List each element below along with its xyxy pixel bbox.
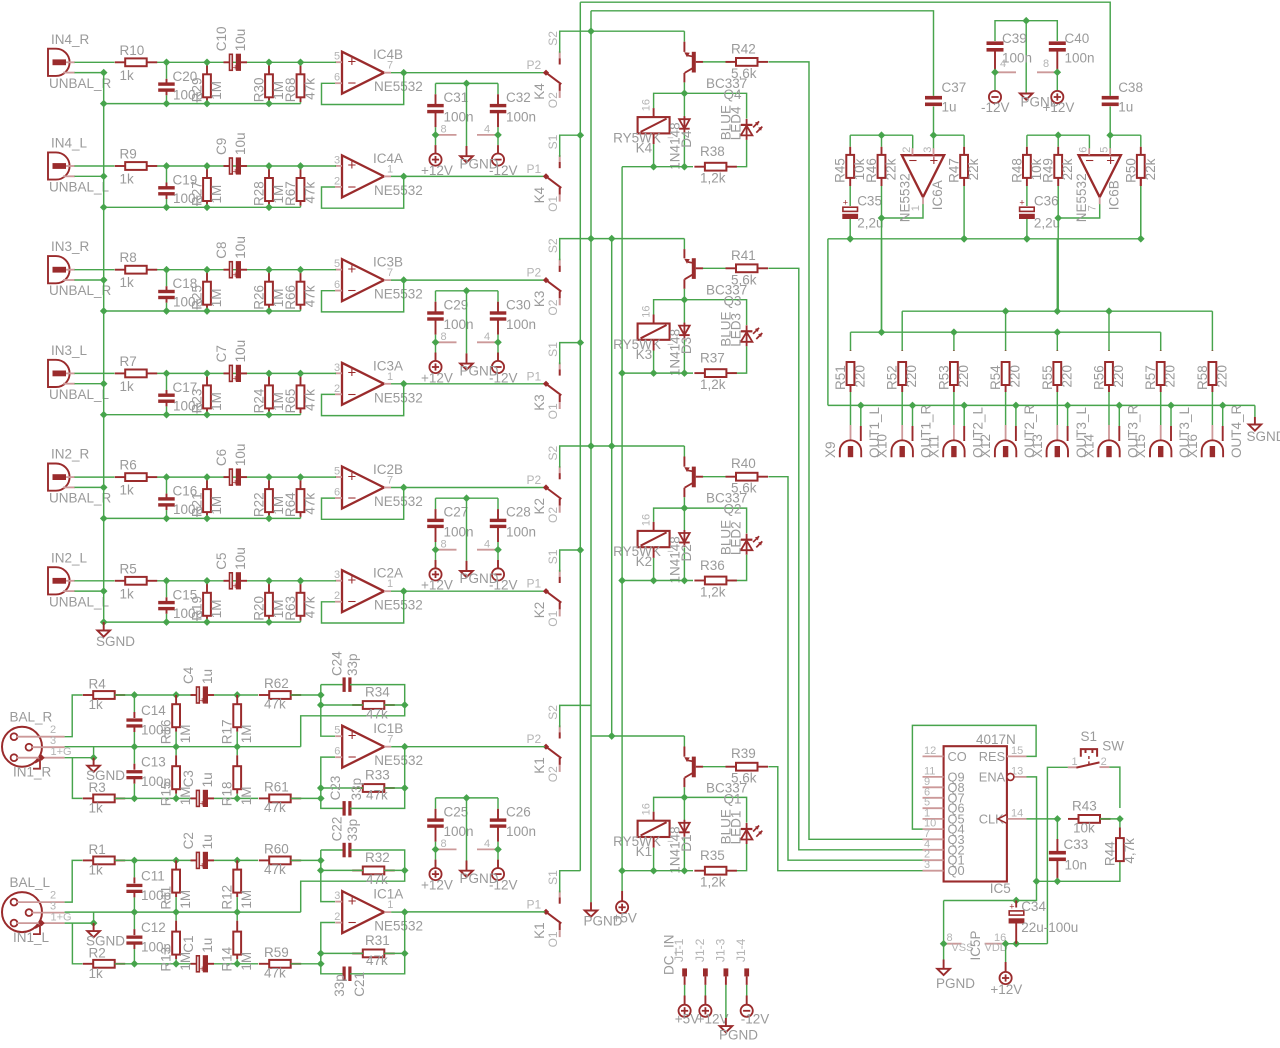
svg-text:1k: 1k (89, 697, 104, 712)
svg-text:O2: O2 (546, 507, 560, 523)
svg-text:33p: 33p (349, 778, 364, 801)
svg-text:1M: 1M (209, 81, 224, 100)
svg-text:4017N: 4017N (976, 732, 1016, 747)
svg-text:33p: 33p (345, 819, 360, 842)
svg-text:BAL_L: BAL_L (10, 875, 51, 890)
svg-text:R13: R13 (159, 947, 174, 972)
svg-text:R21: R21 (190, 492, 205, 517)
svg-text:C4: C4 (181, 666, 196, 684)
svg-text:LED3: LED3 (729, 313, 744, 347)
svg-text:1k: 1k (120, 68, 135, 83)
svg-text:14: 14 (1011, 807, 1023, 819)
svg-text:15: 15 (1011, 745, 1023, 757)
svg-text:R39: R39 (731, 746, 756, 761)
svg-text:NE5532: NE5532 (374, 753, 423, 768)
svg-text:R6: R6 (120, 458, 137, 473)
svg-text:ENA: ENA (979, 769, 1006, 784)
svg-text:C23: C23 (328, 776, 343, 801)
svg-text:10n: 10n (1065, 858, 1088, 873)
svg-text:P1: P1 (527, 369, 542, 383)
svg-text:R15: R15 (159, 781, 174, 806)
svg-text:2: 2 (334, 175, 340, 187)
svg-text:IN2_L: IN2_L (51, 550, 88, 565)
svg-text:S2: S2 (546, 31, 560, 46)
svg-text:1,2k: 1,2k (700, 171, 726, 186)
svg-text:P2: P2 (527, 473, 542, 487)
svg-text:2: 2 (334, 590, 340, 602)
svg-text:SW: SW (1102, 739, 1124, 754)
svg-text:IN3_L: IN3_L (51, 343, 88, 358)
svg-text:+12V: +12V (1043, 100, 1075, 115)
svg-text:100n: 100n (1002, 51, 1032, 66)
svg-text:R61: R61 (264, 779, 289, 794)
svg-text:UNBAL_L: UNBAL_L (49, 594, 110, 609)
svg-text:C3: C3 (181, 770, 196, 787)
svg-text:C14: C14 (141, 703, 166, 718)
svg-text:OUT4_R: OUT4_R (1229, 404, 1244, 458)
svg-text:1k: 1k (89, 862, 104, 877)
svg-text:Q4: Q4 (724, 87, 743, 102)
svg-text:47k: 47k (366, 953, 388, 968)
svg-text:1u: 1u (200, 834, 215, 849)
svg-text:IN1_L: IN1_L (13, 930, 50, 945)
svg-text:R64: R64 (283, 492, 298, 517)
svg-text:R62: R62 (264, 676, 289, 691)
svg-text:2: 2 (334, 383, 340, 395)
svg-text:10u: 10u (233, 547, 248, 570)
svg-text:R58: R58 (1195, 365, 1210, 390)
svg-text:6: 6 (334, 279, 340, 291)
svg-text:R32: R32 (365, 850, 390, 865)
svg-text:UNBAL_R: UNBAL_R (49, 283, 112, 298)
svg-text:S1: S1 (546, 134, 560, 149)
svg-text:C40: C40 (1065, 31, 1090, 46)
svg-text:5: 5 (334, 51, 340, 63)
svg-text:P2: P2 (527, 732, 542, 746)
svg-text:C1: C1 (181, 936, 196, 953)
svg-text:C39: C39 (1002, 31, 1027, 46)
svg-text:O1: O1 (546, 610, 560, 626)
svg-text:IN4_L: IN4_L (51, 136, 88, 151)
svg-text:5: 5 (334, 725, 340, 737)
svg-text:UNBAL_R: UNBAL_R (49, 491, 112, 506)
svg-text:1M: 1M (239, 786, 254, 805)
svg-text:O2: O2 (546, 92, 560, 108)
svg-text:R59: R59 (264, 945, 289, 960)
svg-text:R49: R49 (1041, 158, 1056, 183)
svg-text:−: − (348, 594, 357, 611)
svg-text:LED2: LED2 (729, 521, 744, 555)
svg-text:R47: R47 (947, 158, 962, 183)
svg-text:C30: C30 (506, 297, 531, 312)
svg-text:J1-3: J1-3 (713, 938, 727, 962)
svg-text:R1: R1 (89, 842, 106, 857)
svg-text:C38: C38 (1118, 80, 1143, 95)
svg-text:47k: 47k (303, 78, 318, 100)
svg-text:47k: 47k (303, 493, 318, 515)
svg-text:K4: K4 (532, 83, 547, 100)
svg-text:R8: R8 (120, 250, 137, 265)
svg-text:+: + (200, 964, 205, 974)
svg-text:C9: C9 (214, 138, 229, 155)
svg-text:8: 8 (441, 331, 447, 343)
svg-text:R68: R68 (283, 78, 298, 103)
svg-text:K1: K1 (532, 757, 547, 774)
svg-text:R24: R24 (252, 388, 267, 413)
svg-text:S1: S1 (546, 549, 560, 564)
svg-text:D2: D2 (679, 544, 694, 561)
svg-text:R53: R53 (936, 365, 951, 390)
svg-text:10u: 10u (233, 236, 248, 259)
svg-text:1M: 1M (178, 890, 193, 909)
svg-text:R17: R17 (220, 719, 235, 744)
svg-text:16: 16 (641, 99, 653, 111)
svg-text:R25: R25 (190, 285, 205, 310)
svg-text:R29: R29 (190, 78, 205, 103)
svg-text:NE5532: NE5532 (374, 598, 423, 613)
svg-text:100n: 100n (506, 317, 536, 332)
svg-text:1k: 1k (120, 379, 135, 394)
svg-text:+: + (233, 477, 238, 487)
svg-text:100n: 100n (444, 824, 474, 839)
svg-text:100n: 100n (506, 824, 536, 839)
svg-text:R42: R42 (731, 41, 756, 56)
svg-text:R37: R37 (700, 351, 725, 366)
svg-text:R52: R52 (885, 365, 900, 390)
svg-text:C11: C11 (141, 868, 165, 883)
svg-text:-12V: -12V (741, 1012, 770, 1027)
svg-text:Q2: Q2 (724, 502, 742, 517)
svg-text:47k: 47k (264, 965, 286, 980)
svg-text:1M: 1M (178, 786, 193, 805)
svg-text:3: 3 (334, 569, 340, 581)
svg-text:R56: R56 (1092, 365, 1107, 390)
svg-text:R63: R63 (283, 596, 298, 621)
svg-text:K2: K2 (532, 602, 547, 619)
svg-text:47k: 47k (366, 707, 388, 722)
svg-text:+12V: +12V (697, 1012, 729, 1027)
svg-text:R16: R16 (159, 719, 174, 744)
svg-text:R50: R50 (1123, 158, 1138, 183)
svg-text:10u: 10u (233, 340, 248, 363)
svg-text:1,2k: 1,2k (700, 377, 726, 392)
svg-text:PGND: PGND (460, 871, 499, 886)
svg-text:100n: 100n (506, 110, 536, 125)
svg-text:5: 5 (334, 258, 340, 270)
svg-text:O2: O2 (546, 766, 560, 782)
svg-text:22k: 22k (1143, 158, 1158, 180)
svg-text:1M: 1M (239, 724, 254, 743)
svg-text:IN1_R: IN1_R (13, 765, 52, 780)
svg-text:1k: 1k (120, 172, 135, 187)
svg-text:NE5532: NE5532 (374, 390, 423, 405)
svg-text:4: 4 (1000, 58, 1006, 70)
svg-text:S1: S1 (546, 342, 560, 357)
svg-text:C37: C37 (942, 80, 967, 95)
svg-text:3: 3 (334, 362, 340, 374)
svg-text:4,7k: 4,7k (1122, 838, 1137, 864)
svg-text:R40: R40 (731, 456, 756, 471)
svg-text:+5V: +5V (675, 1012, 699, 1027)
svg-text:UNBAL_R: UNBAL_R (49, 76, 112, 91)
svg-text:1+G: 1+G (51, 746, 72, 758)
svg-text:6: 6 (334, 746, 340, 758)
svg-text:C22: C22 (330, 817, 345, 842)
svg-text:RES: RES (979, 749, 1005, 764)
svg-text:100n: 100n (444, 110, 474, 125)
svg-text:R9: R9 (120, 147, 137, 162)
svg-text:R26: R26 (252, 285, 267, 310)
svg-text:Q1: Q1 (724, 792, 742, 807)
svg-text:IN4_R: IN4_R (51, 32, 90, 47)
svg-text:6: 6 (334, 72, 340, 84)
svg-text:NE5532: NE5532 (374, 287, 423, 302)
svg-text:1M: 1M (178, 952, 193, 971)
svg-text:C13: C13 (141, 755, 166, 770)
svg-text:K3: K3 (532, 291, 547, 308)
svg-text:O1: O1 (546, 196, 560, 212)
svg-text:O1: O1 (546, 931, 560, 947)
svg-text:−: − (348, 179, 357, 196)
svg-text:1,2k: 1,2k (700, 585, 726, 600)
svg-text:O1: O1 (546, 403, 560, 419)
svg-text:1M: 1M (209, 600, 224, 619)
svg-text:+: + (348, 365, 357, 382)
svg-text:R46: R46 (864, 158, 879, 183)
svg-text:P2: P2 (527, 58, 542, 72)
svg-text:+: + (233, 166, 238, 176)
svg-text:PGND: PGND (936, 976, 975, 991)
svg-text:16: 16 (641, 514, 653, 526)
svg-text:C2: C2 (181, 832, 196, 849)
svg-text:47k: 47k (303, 285, 318, 307)
svg-text:C28: C28 (506, 505, 531, 520)
svg-text:X11: X11 (926, 435, 941, 458)
svg-text:C5: C5 (214, 553, 229, 570)
svg-text:IC6B: IC6B (1107, 180, 1122, 210)
svg-text:R31: R31 (365, 933, 390, 948)
svg-text:R55: R55 (1040, 365, 1055, 390)
svg-text:J1-1: J1-1 (672, 938, 686, 962)
svg-text:1M: 1M (209, 496, 224, 515)
svg-text:+: + (233, 374, 238, 384)
svg-text:IC3B: IC3B (373, 255, 403, 270)
svg-text:X13: X13 (1030, 434, 1045, 458)
svg-text:R48: R48 (1009, 158, 1024, 183)
svg-text:+12V: +12V (990, 982, 1022, 997)
svg-text:R67: R67 (283, 181, 298, 206)
svg-text:Q0: Q0 (948, 863, 965, 878)
svg-text:22k: 22k (1060, 158, 1075, 180)
svg-text:P2: P2 (527, 266, 542, 280)
svg-text:R57: R57 (1143, 365, 1158, 390)
svg-text:22k: 22k (966, 158, 981, 180)
svg-text:R54: R54 (988, 365, 1003, 390)
svg-text:47k: 47k (303, 389, 318, 411)
svg-text:−: − (348, 490, 357, 507)
svg-text:+: + (348, 157, 357, 174)
svg-text:1u: 1u (1118, 100, 1133, 115)
svg-text:8: 8 (441, 124, 447, 136)
svg-text:D1: D1 (679, 834, 694, 851)
svg-text:X15: X15 (1133, 434, 1148, 458)
svg-text:47k: 47k (303, 181, 318, 203)
svg-text:4: 4 (484, 124, 490, 136)
svg-text:+: + (348, 54, 357, 71)
svg-text:R19: R19 (190, 596, 205, 621)
svg-text:C25: C25 (444, 804, 469, 819)
svg-text:R34: R34 (365, 685, 390, 700)
svg-text:−: − (348, 283, 357, 300)
svg-text:8: 8 (441, 538, 447, 550)
svg-text:NE5532: NE5532 (1074, 173, 1089, 222)
svg-text:33p: 33p (332, 974, 347, 997)
svg-text:R2: R2 (89, 945, 106, 960)
svg-text:+: + (233, 581, 238, 591)
svg-text:22u-100u: 22u-100u (1021, 920, 1078, 935)
svg-text:220: 220 (1008, 365, 1023, 388)
svg-text:3: 3 (922, 147, 934, 153)
svg-text:6: 6 (334, 487, 340, 499)
svg-text:47k: 47k (303, 596, 318, 618)
svg-text:16: 16 (641, 305, 653, 317)
svg-text:IC5: IC5 (990, 881, 1011, 896)
svg-text:R43: R43 (1072, 799, 1097, 814)
svg-text:220: 220 (956, 365, 971, 388)
svg-text:R12: R12 (220, 885, 235, 910)
svg-text:IC6A: IC6A (930, 180, 945, 210)
svg-text:S1: S1 (546, 870, 560, 885)
svg-text:47k: 47k (264, 862, 286, 877)
svg-text:P1: P1 (527, 577, 542, 591)
svg-text:IC1B: IC1B (373, 721, 403, 736)
svg-text:8: 8 (441, 838, 447, 850)
svg-text:2: 2 (334, 911, 340, 923)
svg-text:R11: R11 (159, 886, 174, 910)
svg-text:1k: 1k (120, 483, 135, 498)
svg-text:1M: 1M (209, 392, 224, 411)
svg-text:+12V: +12V (421, 578, 453, 593)
svg-text:R51: R51 (833, 365, 848, 390)
svg-text:IC5P: IC5P (968, 930, 983, 960)
svg-text:47k: 47k (366, 872, 388, 887)
svg-text:C21: C21 (352, 972, 367, 997)
svg-text:R35: R35 (700, 848, 725, 863)
svg-text:S2: S2 (546, 445, 560, 460)
svg-text:+12V: +12V (421, 163, 453, 178)
svg-text:1k: 1k (120, 586, 135, 601)
svg-text:PGND: PGND (719, 1028, 758, 1043)
svg-text:220: 220 (904, 365, 919, 388)
svg-text:UNBAL_L: UNBAL_L (49, 180, 110, 195)
svg-text:10u: 10u (233, 29, 248, 52)
svg-text:100n: 100n (506, 525, 536, 540)
svg-text:X9: X9 (823, 441, 838, 458)
svg-text:CO: CO (948, 749, 967, 764)
svg-text:K1: K1 (636, 844, 653, 859)
svg-text:PGND: PGND (460, 364, 499, 379)
svg-text:47k: 47k (264, 697, 286, 712)
svg-text:K3: K3 (636, 347, 653, 362)
svg-text:R10: R10 (120, 43, 145, 58)
svg-text:100n: 100n (1065, 51, 1095, 66)
svg-text:+: + (348, 261, 357, 278)
svg-text:47k: 47k (366, 787, 388, 802)
svg-text:IC2A: IC2A (373, 566, 403, 581)
svg-text:IC3A: IC3A (373, 358, 403, 373)
svg-text:C36: C36 (1034, 194, 1059, 209)
svg-text:5: 5 (334, 466, 340, 478)
svg-text:R30: R30 (252, 78, 267, 103)
svg-text:+: + (348, 572, 357, 589)
svg-text:SGND: SGND (96, 634, 135, 649)
svg-text:6: 6 (1078, 147, 1090, 153)
svg-text:+: + (843, 198, 848, 208)
svg-text:+: + (348, 893, 357, 910)
svg-text:K4: K4 (532, 186, 547, 203)
svg-text:1u: 1u (200, 938, 215, 953)
svg-text:NE5532: NE5532 (374, 183, 423, 198)
svg-text:X12: X12 (978, 434, 993, 458)
svg-text:R18: R18 (220, 781, 235, 806)
svg-text:+5V: +5V (613, 911, 637, 926)
svg-text:1: 1 (1072, 756, 1078, 768)
svg-text:X16: X16 (1185, 434, 1200, 458)
svg-text:X10: X10 (875, 434, 890, 458)
svg-text:1u: 1u (200, 669, 215, 684)
svg-text:C26: C26 (506, 804, 531, 819)
svg-text:IC4A: IC4A (373, 151, 403, 166)
svg-text:P1: P1 (527, 897, 542, 911)
svg-text:R33: R33 (365, 767, 390, 782)
svg-text:R4: R4 (89, 677, 107, 692)
svg-text:5: 5 (1099, 147, 1111, 153)
svg-text:16: 16 (641, 803, 653, 815)
svg-text:1+G: 1+G (51, 912, 72, 924)
svg-text:IC4B: IC4B (373, 47, 403, 62)
svg-text:R45: R45 (833, 158, 848, 183)
svg-text:1M: 1M (178, 724, 193, 743)
svg-text:IN3_R: IN3_R (51, 239, 90, 254)
svg-text:R27: R27 (190, 181, 205, 206)
svg-text:+: + (233, 270, 238, 280)
svg-text:+: + (200, 799, 205, 809)
svg-text:PGND: PGND (460, 156, 499, 171)
svg-text:-12V: -12V (981, 100, 1010, 115)
svg-text:33p: 33p (345, 653, 360, 676)
svg-text:−: − (348, 915, 357, 932)
svg-text:PGND: PGND (460, 571, 499, 586)
svg-text:S2: S2 (546, 238, 560, 253)
svg-text:+: + (930, 153, 939, 170)
svg-text:UNBAL_L: UNBAL_L (49, 387, 110, 402)
svg-text:X14: X14 (1082, 433, 1097, 458)
svg-text:D3: D3 (679, 337, 694, 354)
svg-text:+12V: +12V (421, 370, 453, 385)
svg-text:R14: R14 (220, 946, 235, 971)
svg-text:R20: R20 (252, 596, 267, 621)
svg-text:C7: C7 (214, 345, 229, 362)
svg-text:R23: R23 (190, 389, 205, 414)
svg-text:1M: 1M (209, 185, 224, 204)
svg-text:+: + (348, 728, 357, 745)
svg-text:1M: 1M (209, 288, 224, 307)
svg-text:10u: 10u (233, 444, 248, 467)
svg-text:P1: P1 (527, 162, 542, 176)
svg-text:220: 220 (1111, 365, 1126, 388)
svg-text:S1: S1 (1081, 729, 1098, 744)
svg-text:R65: R65 (283, 389, 298, 414)
